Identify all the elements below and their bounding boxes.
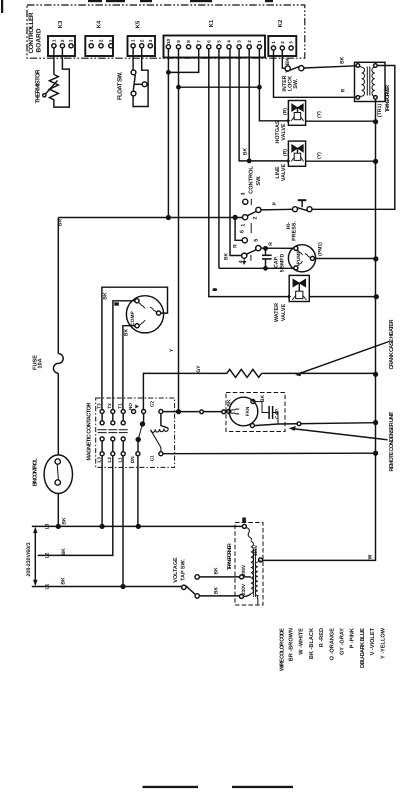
connector K5 <box>128 36 156 56</box>
wire K1 pin6 down to water valve <box>209 49 289 297</box>
svg-text:BK: BK <box>285 58 291 66</box>
wire K1 pin9 down + junction <box>178 49 180 87</box>
svg-text:2: 2 <box>280 41 285 44</box>
svg-text:BK: BK <box>227 399 233 407</box>
contactor L3 wire down <box>101 456 103 527</box>
wire line valve to right bus <box>306 160 376 162</box>
svg-text:BK: BK <box>61 577 67 585</box>
contactor C1 wire to right bus <box>163 452 376 455</box>
svg-text:9: 9 <box>176 40 181 43</box>
svg-text:PUMP: PUMP <box>296 250 302 265</box>
svg-text:K3: K3 <box>57 20 64 28</box>
contactor aux wire down to L3 line <box>137 456 139 527</box>
svg-text:10A: 10A <box>38 358 44 368</box>
svg-text:3: 3 <box>289 41 294 44</box>
svg-text:2: 2 <box>60 39 65 42</box>
controller board dashed outline <box>27 5 305 58</box>
115V terminal <box>259 558 263 562</box>
svg-text:BK: BK <box>260 395 266 403</box>
svg-text:WIRE COLOR CODE: WIRE COLOR CODE <box>280 628 286 671</box>
capacitor CAP 5.5MFD <box>265 248 267 254</box>
secondary bottom stub <box>257 599 259 605</box>
bin control oval <box>44 455 72 494</box>
control switch pole 2 <box>256 207 261 212</box>
svg-text:BK: BK <box>214 587 220 595</box>
power transformer primary coil <box>251 542 254 594</box>
svg-text:2: 2 <box>139 39 144 42</box>
pump motor PM1 <box>288 245 315 272</box>
water valve WV <box>289 275 309 301</box>
thermistor arrow <box>45 81 58 95</box>
fuse 10A <box>53 354 63 374</box>
svg-text:7: 7 <box>196 40 201 43</box>
svg-text:W -WHITE: W -WHITE <box>299 628 305 655</box>
control switch pole 5 <box>256 246 261 251</box>
svg-text:L1: L1 <box>45 583 51 589</box>
wire K1 pin4 down to control sw contact 4 <box>230 49 242 256</box>
svg-text:O -ORANGE: O -ORANGE <box>329 628 335 661</box>
svg-text:10: 10 <box>166 39 171 45</box>
pin numbers K3 <box>52 39 294 45</box>
supply line labels <box>45 517 68 590</box>
wire pole2 to hi-press <box>261 208 293 211</box>
control switch contact 1 <box>243 215 248 220</box>
wire hi-press to TR1 top bus <box>312 66 395 210</box>
svg-text:FLOAT SW.: FLOAT SW. <box>117 72 124 100</box>
svg-text:L2: L2 <box>107 457 112 463</box>
svg-text:R: R <box>341 88 347 92</box>
svg-text:5.5MFD: 5.5MFD <box>280 254 286 273</box>
svg-text:5: 5 <box>254 239 260 242</box>
svg-text:T1: T1 <box>117 403 122 409</box>
page edge artifact top-left <box>1 0 3 13</box>
svg-text:208-230V/60/3: 208-230V/60/3 <box>26 542 32 576</box>
svg-text:K2: K2 <box>277 20 284 27</box>
svg-text:BR -BROWN: BR -BROWN <box>289 628 295 661</box>
svg-text:L3: L3 <box>45 523 51 529</box>
svg-text:P -PINK: P -PINK <box>350 628 356 648</box>
svg-text:L3: L3 <box>96 457 101 463</box>
svg-text:BK: BK <box>224 253 230 261</box>
svg-text:3: 3 <box>69 39 74 42</box>
svg-text:(R): (R) <box>282 149 288 156</box>
wire K5 pin1 to float sw <box>132 48 134 70</box>
svg-text:K5: K5 <box>136 20 142 28</box>
compressor T1 wire <box>123 326 135 410</box>
wire color code table <box>280 627 387 671</box>
svg-text:VALVE: VALVE <box>281 123 287 141</box>
wire K2 pin2 to interlock <box>282 50 285 68</box>
svg-text:R: R <box>268 242 274 246</box>
svg-text:SW.: SW. <box>293 78 299 88</box>
svg-text:4: 4 <box>239 260 245 263</box>
wire pole5 to pump with capacitor branch <box>261 247 294 249</box>
svg-text:(TR1): (TR1) <box>377 104 383 118</box>
magnetic contactor dashed box <box>96 398 175 467</box>
contactor aux contact <box>143 414 145 422</box>
contactor main contacts <box>98 414 128 452</box>
wire K2 pin1 to TR1 BL terminal <box>274 50 357 97</box>
contactor bottom terminals <box>100 452 104 456</box>
contactor terminal labels <box>96 401 154 464</box>
svg-text:BK: BK <box>62 517 68 525</box>
wire K1 pin3 down to line valve <box>239 49 288 161</box>
power transformer core <box>254 549 256 597</box>
condenser fan motor <box>229 397 258 426</box>
svg-text:3: 3 <box>240 193 246 196</box>
svg-text:MAGNETIC CONTACTOR: MAGNETIC CONTACTOR <box>86 403 92 461</box>
contactor top terminals <box>100 410 104 414</box>
svg-text:TAP SW.: TAP SW. <box>180 559 186 581</box>
wire K3 pin1 to thermistor <box>53 48 55 75</box>
svg-text:3: 3 <box>148 39 153 42</box>
svg-text:(Y): (Y) <box>316 111 322 118</box>
svg-text:2: 2 <box>253 217 259 220</box>
hi-press switch <box>293 207 298 212</box>
wire K1 pin2 down to line valve wire <box>248 49 250 161</box>
control switch link bars <box>250 199 252 205</box>
svg-text:3: 3 <box>237 40 242 43</box>
transformer TR1 <box>355 62 386 101</box>
compressor motor CM1 <box>126 296 163 333</box>
svg-text:BOARD: BOARD <box>36 28 43 52</box>
svg-text:BIN CONTROL: BIN CONTROL <box>32 458 38 487</box>
svg-text:VALVE: VALVE <box>281 304 287 322</box>
svg-text:BK: BK <box>214 567 220 575</box>
svg-text:T2: T2 <box>107 403 112 409</box>
svg-text:DBU-DARK BLUE: DBU-DARK BLUE <box>360 628 366 668</box>
svg-text:DN: DN <box>130 456 135 463</box>
svg-text:REMOTE CONDENSER UNIT: REMOTE CONDENSER UNIT <box>389 411 395 472</box>
compressor T2 wire <box>113 301 135 410</box>
wire BR corner down to bin control <box>57 218 59 354</box>
wire bin control to L3 line <box>57 494 59 527</box>
wire branch to control sw contact 6 <box>235 217 242 240</box>
svg-text:1: 1 <box>52 39 57 42</box>
svg-text:L2: L2 <box>45 552 51 558</box>
svg-text:BK: BK <box>243 148 249 156</box>
svg-text:2: 2 <box>247 40 252 43</box>
wire pin5 junction to pump lower terminal <box>219 267 294 269</box>
svg-text:1: 1 <box>131 39 136 42</box>
power transformer dashed box <box>235 523 263 606</box>
svg-text:T3: T3 <box>96 403 101 409</box>
svg-text:PRESS.: PRESS. <box>291 221 297 241</box>
svg-text:THERMISTOR: THERMISTOR <box>35 69 42 104</box>
wire TR1 BR terminal down: main right bus <box>263 99 376 560</box>
svg-text:3: 3 <box>108 39 113 42</box>
control switch blade 2-1 <box>247 211 256 216</box>
line valve LV <box>288 141 305 166</box>
svg-text:BR: BR <box>58 219 64 227</box>
svg-text:WATER: WATER <box>274 303 280 322</box>
hot gas valve HGV <box>288 101 305 126</box>
svg-text:CAP.: CAP. <box>275 408 281 419</box>
condenser fan unit dashed box <box>226 393 285 432</box>
fan wire to right bus <box>254 423 375 426</box>
208V tap <box>240 575 244 579</box>
control switch contact 3 <box>243 199 248 204</box>
interlock switch <box>285 66 290 71</box>
svg-text:V -VIOLET: V -VIOLET <box>370 627 376 655</box>
svg-text:(Y): (Y) <box>316 152 322 159</box>
svg-text:8: 8 <box>186 40 191 43</box>
svg-text:1: 1 <box>271 41 276 44</box>
wire K1 pin1 down to hot gas valve <box>259 49 288 121</box>
230V tap <box>239 594 243 598</box>
svg-text:1: 1 <box>257 40 262 43</box>
wire pump to right bus <box>314 258 375 260</box>
svg-text:C1: C1 <box>150 455 155 461</box>
wire K1 pin7 to pin10 <box>168 49 198 73</box>
remote condenser unit pointer arrow <box>291 429 387 440</box>
svg-text:BK: BK <box>123 329 129 337</box>
wire Y bus (pin9 junction down to contactor C2 wire) <box>178 87 180 411</box>
svg-text:L1: L1 <box>117 457 122 463</box>
svg-text:K4: K4 <box>97 20 103 28</box>
contactor L2 wire down <box>112 456 115 556</box>
compressor wire loop (C terminal to contactor T3) <box>102 287 168 409</box>
wire interlock to TR1 TL terminal <box>304 66 356 68</box>
svg-text:W: W <box>367 554 373 559</box>
svg-text:R -RED: R -RED <box>319 628 325 647</box>
svg-text:COMP: COMP <box>130 311 136 326</box>
page top cut-off text dashes <box>88 0 273 2</box>
svg-text:4: 4 <box>227 40 232 43</box>
svg-text:CONTROL: CONTROL <box>248 166 254 194</box>
supply line L2 <box>38 554 114 556</box>
svg-text:GY -GRAY: GY -GRAY <box>340 628 346 655</box>
svg-text:NO: NO <box>128 403 133 410</box>
connector K3 <box>48 36 75 56</box>
voltage tap switch <box>182 585 186 589</box>
svg-text:(R): (R) <box>282 108 288 115</box>
svg-text:1: 1 <box>89 39 94 42</box>
svg-text:2: 2 <box>99 39 104 42</box>
wire water valve to right bus <box>309 296 376 298</box>
svg-text:BK: BK <box>103 292 109 300</box>
svg-text:SW.: SW. <box>256 175 262 186</box>
svg-text:6: 6 <box>206 40 211 43</box>
svg-text:CONTROLLER: CONTROLLER <box>28 12 35 53</box>
crank case heater wire + zigzag <box>143 373 226 409</box>
wire K1 pin5 down to capacitor junction <box>218 49 220 268</box>
svg-text:R: R <box>233 244 239 248</box>
svg-text:TRANSFORMER: TRANSFORMER <box>227 543 233 570</box>
contactor C2 wire to fan motor (with connector circles) <box>163 411 227 413</box>
connector K1 <box>164 36 266 58</box>
contactor coil <box>161 414 168 429</box>
crank case heater pointer arrow <box>298 342 390 375</box>
svg-text:BK: BK <box>61 548 67 556</box>
svg-text:TRANSFORMER: TRANSFORMER <box>385 85 391 112</box>
svg-text:115V: 115V <box>253 544 259 556</box>
svg-text:FAN: FAN <box>245 406 251 416</box>
svg-text:GY: GY <box>196 365 202 373</box>
svg-text:VALVE: VALVE <box>281 164 287 182</box>
thermistor resistor zigzag <box>49 75 58 100</box>
control switch contact 6 <box>242 238 247 243</box>
svg-text:CRANK CASE HEATER: CRANK CASE HEATER <box>389 320 395 370</box>
float switch contacts <box>131 70 136 75</box>
svg-text:BK: BK <box>340 56 346 64</box>
wire hot gas valve to right bus <box>306 120 376 122</box>
bottom page bars <box>143 786 199 788</box>
connector K2 <box>268 36 296 56</box>
wire horizontal net y=217.4 (BR from transformer area to control sw) <box>58 217 242 219</box>
svg-text:5: 5 <box>217 40 222 43</box>
fan capacitor <box>255 402 269 413</box>
svg-text:BK -BLACK: BK -BLACK <box>309 628 315 659</box>
transformer primary top terminal + S bend <box>242 524 246 528</box>
wire K1 pin10 down <box>167 49 169 218</box>
svg-text:K1: K1 <box>209 19 215 27</box>
float switch body box / wire from K5 pin2 <box>133 48 148 107</box>
wire pin9 junction to pin1 riser <box>179 86 260 88</box>
svg-text:208V: 208V <box>241 564 247 576</box>
power transformer secondary coil <box>256 562 258 599</box>
svg-text:C2: C2 <box>150 401 155 407</box>
svg-text:Y -YELLOW: Y -YELLOW <box>380 627 386 659</box>
svg-text:1: 1 <box>241 224 247 227</box>
thermistor loop wire to K3 pin2 <box>54 48 69 107</box>
svg-text:230V: 230V <box>241 583 247 595</box>
supply span arrow <box>34 529 36 585</box>
connector K4 <box>85 36 113 56</box>
control switch blade 5-4 <box>246 250 256 255</box>
svg-text:6: 6 <box>240 230 246 233</box>
control switch contact 4 <box>242 253 247 258</box>
contactor L1 wire down <box>122 456 124 587</box>
svg-text:(PM1): (PM1) <box>318 242 324 256</box>
supply line L3 <box>32 525 243 527</box>
supply line L1 <box>32 586 182 588</box>
svg-text:VOLTAGE: VOLTAGE <box>173 557 179 583</box>
